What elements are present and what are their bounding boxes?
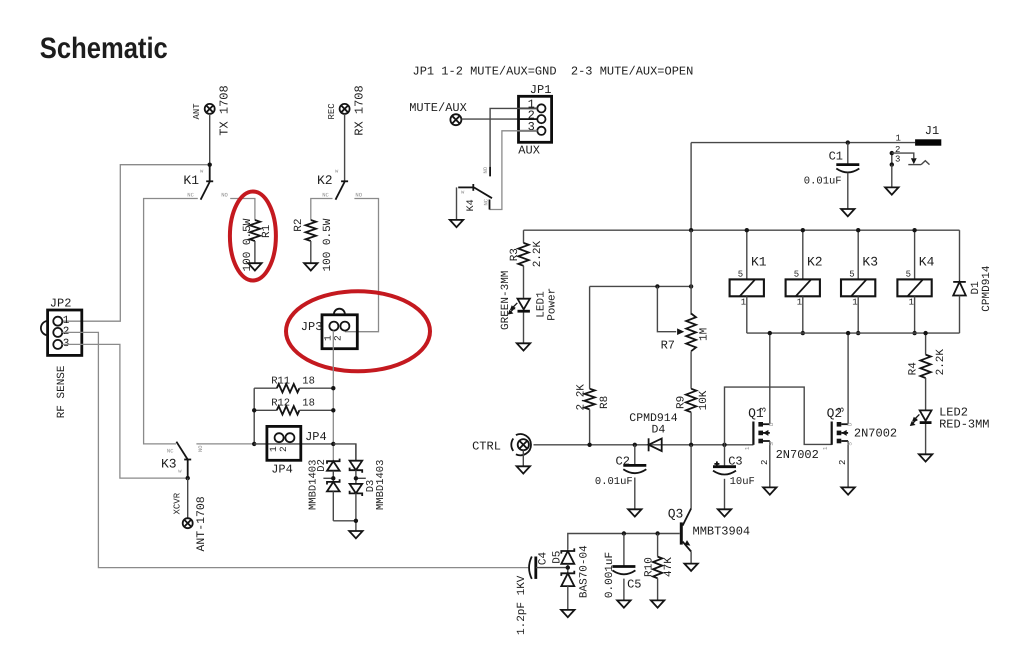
svg-text:R4: R4 [907, 362, 919, 376]
wire to D3 top [333, 444, 356, 461]
capacitor C2 [634, 445, 636, 465]
ground below R1 [248, 263, 261, 270]
connector RX 1708 (REC) [340, 104, 350, 114]
svg-text:3: 3 [758, 407, 768, 412]
wire RX to K2 [344, 114, 346, 182]
node JP4/D2 junction [331, 442, 335, 446]
svg-text:CTRL: CTRL [472, 440, 501, 454]
svg-text:CPMD914: CPMD914 [981, 265, 993, 312]
wire Q1 drain to relay bus [769, 333, 771, 424]
svg-text:10uF: 10uF [730, 476, 755, 488]
wire MUTE/AUX to JP1 pin 2 [462, 118, 538, 120]
svg-text:2N7002: 2N7002 [776, 448, 819, 462]
node C1 tap [846, 140, 850, 144]
switch K1 [209, 165, 211, 182]
svg-text:1: 1 [744, 446, 751, 450]
connector JP1 [519, 96, 552, 142]
svg-text:5: 5 [849, 269, 854, 279]
svg-text:ANT: ANT [192, 103, 202, 120]
svg-text:3: 3 [837, 407, 847, 412]
node K3 pole junction [186, 476, 190, 480]
svg-text:MMBD1403: MMBD1403 [375, 460, 387, 510]
svg-text:18: 18 [302, 376, 315, 388]
svg-text:NC: NC [322, 192, 329, 199]
svg-text:AUX: AUX [518, 144, 540, 158]
svg-text:2: 2 [333, 335, 344, 341]
svg-text:2.2K: 2.2K [575, 384, 587, 411]
svg-text:2: 2 [838, 460, 848, 465]
svg-text:JP4: JP4 [305, 430, 327, 444]
wire Q2 drain to relay bus [847, 333, 849, 424]
wire K3 NO to R11/R12/JP4 node [196, 443, 254, 445]
diode D2 (dual MMBD1403, pointing up) [327, 459, 340, 471]
svg-text:NO: NO [355, 192, 362, 199]
capacitor C5 0.001uF [623, 534, 625, 567]
svg-text:NO: NO [221, 192, 228, 199]
svg-text:C4: C4 [537, 551, 549, 565]
svg-text:R11: R11 [271, 376, 290, 388]
transistor Q2 (2N7002) [831, 422, 833, 445]
diode D3 (dual MMBD1403, pointing down) [355, 444, 357, 461]
switch K3 [176, 442, 187, 460]
wire Q1 source to ground [769, 441, 771, 487]
svg-text:C3: C3 [728, 454, 742, 468]
svg-text:MMBT3904: MMBT3904 [693, 525, 751, 539]
svg-text:MMBD1403: MMBD1403 [307, 460, 319, 510]
resistor R10 47K [657, 534, 659, 557]
switch K4 [489, 167, 491, 176]
svg-text:JP3: JP3 [301, 320, 323, 334]
svg-text:K2: K2 [317, 173, 333, 188]
svg-text:K1: K1 [183, 173, 199, 188]
potentiometer R7 1M [686, 314, 696, 352]
svg-text:J1: J1 [925, 124, 939, 138]
wire K1 NC to K3 NC [144, 199, 198, 444]
svg-text:NO: NO [482, 166, 489, 173]
wire K3 pole to ANT-1708 [187, 478, 189, 518]
svg-text:R9: R9 [675, 396, 687, 409]
resistor R8 [584, 389, 594, 410]
svg-text:R2: R2 [293, 218, 305, 231]
svg-text:2: 2 [278, 446, 289, 452]
svg-text:XCVR: XCVR [172, 492, 182, 514]
svg-text:1M: 1M [699, 328, 711, 341]
wire K4 common to ground [456, 187, 458, 219]
node C3/gate tap [722, 443, 726, 447]
wire bus to R7 [690, 230, 692, 315]
svg-text:D4: D4 [652, 423, 666, 436]
wire R7 to R9 [690, 351, 692, 388]
resistor R12 [254, 409, 277, 411]
resistor R1 [250, 220, 260, 241]
svg-text:NC: NC [482, 198, 489, 205]
svg-text:w: w [178, 468, 182, 475]
wire TX to K1 common [209, 114, 211, 165]
diode D4 (CPMD914) [649, 438, 662, 451]
svg-text:D: D [846, 422, 853, 426]
svg-text:1.2pF 1KV: 1.2pF 1KV [516, 575, 528, 635]
wire JP2 pin 2 to C4 (long bottom net) [62, 332, 528, 567]
jumper JP4 [267, 426, 301, 460]
capacitor C4 1.2pF [529, 557, 532, 579]
svg-text:D: D [768, 422, 775, 426]
resistor R3 [523, 230, 525, 243]
svg-text:MUTE/AUX: MUTE/AUX [409, 101, 467, 115]
svg-text:S: S [846, 442, 853, 446]
highlight ellipse around R1 [230, 192, 276, 281]
wire JP1 pin 1 to K4 NO [490, 108, 537, 176]
svg-text:5: 5 [794, 269, 799, 279]
svg-text:S: S [768, 442, 775, 446]
capacitor C3 10uF [724, 445, 726, 467]
svg-text:2N7002: 2N7002 [854, 427, 897, 441]
wire CTRL main line [534, 444, 754, 446]
svg-text:RF SENSE: RF SENSE [56, 365, 68, 418]
svg-text:10K: 10K [698, 390, 710, 410]
svg-text:K4: K4 [466, 199, 477, 211]
svg-text:JP1: JP1 [530, 83, 552, 97]
node TX/K1/JP2.1 junction [208, 163, 212, 167]
ground below C1 [841, 209, 854, 216]
svg-text:REC: REC [327, 103, 337, 120]
svg-text:BAS70-04: BAS70-04 [579, 545, 591, 598]
svg-text:1: 1 [909, 298, 914, 308]
J1 pin2-pin3 link and stub [891, 153, 893, 165]
ground below C5 [617, 600, 630, 607]
svg-text:TX 1708: TX 1708 [218, 85, 232, 135]
diode D5 (dual BAS70-04) [561, 548, 574, 563]
svg-text:Schematic: Schematic [40, 32, 168, 65]
svg-text:R10: R10 [644, 557, 656, 577]
wire relay bottom bus [747, 332, 960, 334]
svg-text:RX 1708: RX 1708 [353, 85, 367, 135]
ground below D5 [561, 610, 574, 617]
wire main V+ riser [690, 143, 692, 231]
svg-text:JP4: JP4 [271, 463, 293, 477]
svg-text:ANT-1708: ANT-1708 [195, 496, 208, 551]
svg-text:18: 18 [302, 398, 315, 410]
resistor R2 [306, 220, 316, 241]
transistor Q1 (2N7002) [752, 422, 754, 445]
resistor R9 [686, 389, 696, 413]
ground below C2 [628, 509, 641, 516]
svg-text:0.01uF: 0.01uF [595, 476, 633, 488]
svg-text:1: 1 [63, 315, 70, 327]
node C2/D4 tap [633, 443, 637, 447]
wire K1 NO to R1 [230, 199, 255, 221]
svg-text:RED-3MM: RED-3MM [939, 418, 989, 432]
connector ANT-1708 (XCVR) [183, 518, 193, 528]
svg-text:2: 2 [760, 460, 770, 465]
svg-text:K2: K2 [807, 255, 823, 270]
relay coil K1 [746, 230, 748, 279]
resistor R11 [254, 387, 277, 389]
svg-text:R3: R3 [509, 248, 521, 261]
LED1 (GREEN-3MM) [518, 299, 530, 310]
ground below K4 [450, 220, 463, 227]
relay coil K4 [914, 230, 916, 279]
wire JP3 pin1 down to D2/D3 node [332, 331, 334, 461]
svg-text:2-3 MUTE/AUX=OPEN: 2-3 MUTE/AUX=OPEN [571, 65, 693, 79]
svg-text:1: 1 [895, 133, 900, 143]
svg-text:5: 5 [738, 269, 743, 279]
transistor Q3 (MMBT3904) [680, 522, 683, 544]
connector TX 1708 (ANT) [205, 104, 215, 114]
node R8 tap [587, 443, 591, 447]
R7 wiper arrow [657, 286, 676, 331]
ground below D2/D3 [349, 531, 362, 538]
svg-text:1: 1 [797, 298, 802, 308]
svg-text:1: 1 [741, 298, 746, 308]
wire into JP4 pin 1 (passes through JP4) [254, 443, 333, 445]
wire CTRL down to Q3 collector [690, 445, 692, 509]
ground below LED2 [919, 454, 932, 461]
svg-text:100 0.5W: 100 0.5W [322, 218, 334, 271]
wire K2 NC to R2 [311, 199, 333, 221]
svg-text:Power: Power [546, 288, 558, 321]
wire Q3 base net [568, 534, 658, 550]
wire JP1 pin 3 to K4 NC [490, 131, 538, 210]
svg-text:2.2K: 2.2K [532, 240, 544, 267]
node R9/collector junction [689, 443, 693, 447]
wire junction to JP2 pin 1 [63, 165, 208, 322]
svg-text:JP1 1-2 MUTE/AUX=GND: JP1 1-2 MUTE/AUX=GND [413, 65, 557, 79]
svg-text:5: 5 [906, 269, 911, 279]
svg-text:R12: R12 [271, 398, 290, 410]
capacitor C1 [847, 143, 849, 165]
wire K2 NO to JP3 pin 2 [345, 199, 379, 332]
svg-text:C5: C5 [627, 577, 641, 591]
svg-text:Q3: Q3 [668, 507, 684, 522]
svg-text:GREEN-3MM: GREEN-3MM [500, 271, 512, 330]
svg-text:1: 1 [852, 298, 857, 308]
svg-text:3: 3 [528, 120, 535, 134]
wire JP2 pin 3 to K3 pole [62, 344, 185, 478]
wire R11/R12 left ends [253, 388, 255, 444]
LED2 (RED-3MM) [920, 410, 932, 420]
wire Q2 gate net [725, 387, 832, 445]
wire D2/D3 bottoms to ground [333, 521, 356, 531]
wire J1 pin3 to ground [891, 165, 893, 187]
ground below LED1 [517, 343, 530, 350]
svg-text:0.001uF: 0.001uF [604, 552, 616, 598]
CTRL ground [522, 450, 524, 466]
svg-text:K1: K1 [751, 255, 767, 270]
svg-text:R1: R1 [261, 224, 273, 238]
wire top V+ bus [524, 229, 960, 231]
svg-text:w: w [461, 188, 465, 195]
svg-text:K3: K3 [862, 255, 878, 270]
svg-text:47K: 47K [663, 557, 675, 577]
svg-text:NO: NO [197, 445, 204, 452]
ground below C3 [718, 509, 731, 516]
connector J1 [915, 139, 941, 145]
svg-text:R8: R8 [599, 396, 611, 409]
relay coil K3 [857, 230, 859, 279]
ground below R2 [304, 263, 317, 270]
svg-text:0.01uF: 0.01uF [804, 175, 842, 187]
switch K2 [341, 180, 348, 182]
relay coil K2 [802, 230, 804, 279]
resistor R4 [925, 333, 927, 355]
ground below J1 [885, 187, 898, 194]
node bus junction at riser [689, 228, 693, 232]
svg-text:NC: NC [167, 447, 174, 454]
svg-text:2.2K: 2.2K [935, 349, 947, 376]
node R11R12/K3NO/JP4 junction [252, 442, 256, 446]
diode D1 (CPMD914) [959, 230, 961, 281]
svg-text:C1: C1 [829, 149, 843, 163]
wire R8/wiper branch [590, 285, 692, 287]
svg-text:K3: K3 [161, 456, 177, 471]
wire Q2 source to ground [847, 441, 849, 487]
svg-text:w: w [200, 168, 204, 175]
svg-text:NC: NC [187, 192, 194, 199]
svg-text:R7: R7 [661, 339, 675, 353]
svg-text:K4: K4 [919, 255, 935, 270]
jumper JP3 [322, 315, 357, 349]
wire top feed line to J1 [691, 142, 915, 144]
svg-text:1: 1 [822, 446, 829, 450]
ground below R10 [651, 600, 664, 607]
wire Q3 emitter to ground [690, 552, 692, 564]
highlight ellipse around JP3 [286, 291, 430, 371]
svg-text:w: w [335, 168, 339, 175]
svg-text:C2: C2 [616, 454, 630, 468]
connector JP2 [48, 310, 82, 355]
svg-text:JP2: JP2 [50, 296, 72, 310]
svg-text:3: 3 [895, 155, 900, 165]
